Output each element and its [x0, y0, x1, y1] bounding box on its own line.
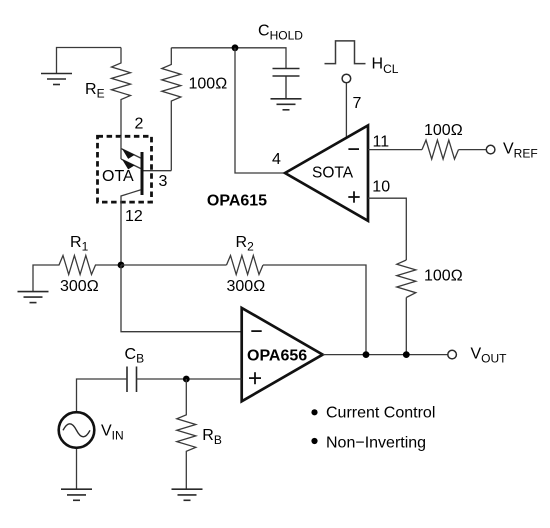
wire VIN to CB	[77, 379, 128, 411]
svg-text:3: 3	[159, 173, 168, 190]
wire top to CHOLD	[171, 48, 286, 68]
svg-text:7: 7	[353, 95, 362, 112]
wire CB to OPA656 plus input	[137, 378, 242, 380]
op-amp SOTA	[285, 125, 368, 220]
bullet text Non-Inverting	[326, 435, 426, 452]
label CHOLD	[258, 23, 303, 43]
label OPA656	[247, 348, 307, 365]
dashed box OTA	[98, 136, 152, 202]
label pin 7	[353, 95, 362, 112]
label VOUT	[471, 346, 508, 366]
label RE	[85, 81, 105, 101]
capacitor CHOLD	[273, 69, 300, 99]
wire pin 10 down to resistor	[368, 198, 406, 260]
svg-text:Current Control: Current Control	[326, 405, 435, 422]
svg-text:300Ω: 300Ω	[227, 278, 266, 295]
ground (RB)	[172, 489, 203, 500]
resistor 100ohm right vertical	[397, 260, 416, 298]
bullet text Current Control	[326, 405, 435, 422]
wire HCL to SOTA pin 7	[345, 83, 347, 138]
label pin 12	[125, 208, 143, 225]
ground (top left)	[41, 74, 72, 85]
node junction dot output	[363, 351, 370, 358]
label OPA615	[207, 192, 267, 209]
SOTA minus sign	[348, 148, 359, 150]
node junction dot 100ohm VOUT	[403, 351, 410, 358]
svg-text:CHOLD: CHOLD	[258, 23, 303, 43]
capacitor CB	[127, 367, 137, 393]
svg-text:4: 4	[272, 151, 281, 168]
node junction dot RB	[183, 376, 190, 383]
svg-text:300Ω: 300Ω	[60, 278, 99, 295]
resistor RE	[112, 48, 131, 137]
node junction dot at CHOLD wire	[232, 44, 239, 51]
ground (under CHOLD)	[271, 99, 302, 110]
OPA656 minus sign	[251, 330, 261, 332]
svg-text:OTA: OTA	[102, 168, 134, 185]
svg-text:100Ω: 100Ω	[424, 122, 463, 139]
terminal circle VREF	[486, 145, 495, 154]
svg-text:11: 11	[373, 134, 390, 151]
svg-text:VIN: VIN	[101, 423, 124, 443]
label pin 4	[272, 151, 281, 168]
wire resistor to VREF	[459, 149, 487, 151]
wire node to R2	[121, 264, 227, 266]
svg-text:OPA656: OPA656	[247, 348, 307, 365]
svg-text:HCL: HCL	[372, 55, 399, 76]
label CB	[125, 346, 145, 366]
label 100ohm at pin 11	[424, 122, 463, 139]
svg-text:VOUT: VOUT	[471, 346, 508, 366]
svg-text:100Ω: 100Ω	[189, 75, 228, 92]
svg-text:VREF: VREF	[503, 141, 538, 161]
label 100ohm right	[424, 267, 463, 284]
label VIN	[101, 423, 124, 443]
label 100ohm upper left	[189, 75, 228, 92]
wire pin 11	[368, 149, 422, 151]
wire from CHOLD node to SOTA pin 4	[235, 48, 285, 173]
svg-text:12: 12	[125, 208, 143, 225]
terminal circle VOUT	[448, 350, 457, 359]
bullet 1	[311, 409, 317, 415]
svg-text:Non−Inverting: Non−Inverting	[326, 435, 426, 452]
svg-text:10: 10	[372, 179, 390, 196]
label VREF	[503, 141, 538, 161]
svg-text:RE: RE	[85, 81, 105, 101]
source VIN	[59, 412, 95, 448]
ground (R1)	[18, 292, 49, 303]
label 300ohm left	[60, 278, 99, 295]
label pin 3	[159, 173, 168, 190]
bullet 2	[311, 438, 317, 444]
resistor R2	[227, 256, 264, 275]
svg-text:RB: RB	[202, 427, 222, 447]
op-amp OPA656	[242, 308, 323, 401]
svg-text:2: 2	[135, 116, 144, 133]
resistor 100ohm at pin 11	[422, 140, 459, 159]
SOTA plus sign	[348, 191, 359, 202]
resistor 100ohm upper left	[162, 48, 181, 171]
label RB	[202, 427, 222, 447]
svg-text:100Ω: 100Ω	[424, 267, 463, 284]
svg-text:SOTA: SOTA	[312, 164, 354, 181]
label SOTA	[312, 164, 354, 181]
svg-text:R2: R2	[236, 234, 255, 254]
ground (VIN)	[61, 489, 92, 500]
label pin 10	[372, 179, 390, 196]
svg-text:CB: CB	[125, 346, 145, 366]
label HCL	[372, 55, 399, 76]
wire OPA656 output to VOUT	[323, 354, 448, 356]
label pin 2	[135, 116, 144, 133]
wire from ground to RE top	[57, 48, 122, 74]
svg-text:OPA615: OPA615	[207, 192, 267, 209]
label OTA	[102, 168, 134, 185]
wire node to OPA656 minus input	[121, 265, 242, 332]
wire resistor to VOUT node	[405, 298, 407, 355]
wire pin 12 to node	[120, 204, 122, 266]
transistor OTA	[121, 136, 171, 204]
resistor R1	[33, 256, 121, 292]
label 300ohm right	[227, 278, 266, 295]
OPA656 plus sign	[249, 372, 261, 384]
HCL pulse symbol	[325, 41, 366, 64]
resistor RB	[177, 379, 196, 489]
label R2	[236, 234, 255, 254]
wire R2 to output node	[263, 265, 366, 355]
label R1	[70, 234, 89, 254]
label pin 11	[373, 134, 390, 151]
svg-text:R1: R1	[70, 234, 89, 254]
wire VIN to ground	[76, 449, 78, 489]
node junction dot R1 R2 pin12	[118, 262, 125, 269]
terminal circle HCL	[342, 74, 351, 83]
